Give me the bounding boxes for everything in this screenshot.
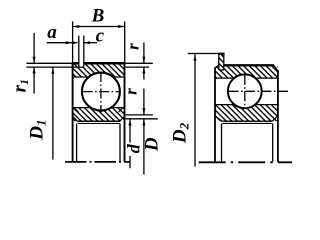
left face line (right bearing) — [214, 68, 216, 162]
right inner vertical below bore (right bearing) — [272, 123, 274, 161]
right face line (right bearing) — [277, 70, 279, 162]
inner ring section hatch (right bearing) — [215, 105, 278, 122]
a arrowhead at face — [66, 41, 73, 44]
inner ring top boundary line (right) — [215, 104, 278, 106]
chamfer extension line to right — [126, 66, 149, 68]
svg-text:r: r — [124, 43, 143, 50]
r1 dimension lower shaft — [33, 67, 35, 94]
a dimension tail line — [47, 42, 72, 44]
svg-text:D: D — [141, 137, 162, 152]
c arrowhead right (pointing left) — [84, 41, 90, 44]
groove bottom (left) — [79, 66, 84, 68]
d dimension line lower segment — [129, 156, 131, 168]
D dimension line lower shaft — [143, 119, 145, 175]
chamfer extension line near bore (right side) — [126, 114, 153, 116]
svg-text:c: c — [96, 26, 105, 47]
ball centerline horizontal (left) — [83, 91, 120, 93]
axis line (left bearing) — [65, 161, 130, 163]
snap ring groove bottom (right bearing) — [219, 69, 224, 71]
d arrowhead up — [129, 119, 132, 126]
right face line (left bearing) — [124, 62, 126, 162]
svg-text:d: d — [123, 143, 143, 153]
bore chamfer left (right bearing) — [216, 117, 222, 122]
ball centerline horizontal (right, extends past face) — [229, 90, 291, 92]
c dimension tail line — [84, 42, 97, 44]
B extension line left — [72, 21, 74, 62]
inner ring section hatch (left bearing) — [73, 108, 125, 122]
OD extension line to left — [26, 62, 71, 64]
groove-bottom extension line to left — [26, 66, 78, 68]
snap ring tab hatch — [219, 54, 223, 70]
outer ring OD line left segment — [72, 62, 79, 65]
OD top chamfer left (right bearing) — [215, 65, 219, 68]
B arrowhead left — [73, 25, 80, 28]
outer ring OD line right segment — [84, 62, 126, 65]
bore chamfer left (left bearing) — [73, 117, 78, 122]
r mid arrowhead up — [142, 119, 145, 126]
B extension line right — [124, 21, 126, 62]
r1 arrowhead up — [33, 67, 36, 74]
B dimension line — [73, 26, 125, 28]
r top arrowhead up — [142, 67, 145, 74]
outer ring section hatch (right bearing) — [215, 66, 278, 78]
bore line 1 (right) — [222, 120, 272, 122]
D1 dimension line — [52, 67, 54, 159]
snap ring tab right side — [223, 54, 225, 70]
inner ring top-left chamfer (left bearing) — [74, 108, 78, 112]
groove left side / c extension line — [78, 36, 80, 68]
r mid dimension upper shaft — [143, 89, 145, 115]
r1 dimension upper shaft — [33, 33, 35, 63]
r top lower shaft — [143, 67, 145, 80]
r1 arrowhead down — [33, 57, 36, 64]
groove right side / c extension line — [83, 36, 85, 68]
bore chamfer right (right bearing) — [272, 117, 277, 122]
D1 arrowhead up — [51, 67, 54, 74]
r mid arrowhead down — [142, 108, 145, 115]
outer ring section hatch (left bearing) — [73, 65, 125, 78]
ball (right bearing) — [228, 74, 262, 108]
bore line 1 (left) — [77, 120, 120, 122]
OD top chamfer right (right bearing) — [273, 65, 278, 71]
r top arrowhead down — [142, 57, 145, 64]
svg-text:a: a — [47, 22, 57, 43]
left inner vertical below bore (right bearing) — [221, 123, 223, 161]
bore extension line to right — [126, 118, 158, 120]
outer ring inner boundary line (left) — [73, 76, 125, 78]
svg-text:r: r — [122, 88, 141, 95]
svg-text:B: B — [91, 5, 105, 26]
OD extension line to right — [126, 62, 153, 64]
d dimension line upper segment — [129, 119, 131, 143]
snap ring tab left side — [218, 54, 220, 70]
D2 dimension line — [194, 54, 196, 166]
left face line (left bearing) — [72, 62, 74, 162]
snap ring groove white notch (left) — [79, 58, 83, 67]
right inner vertical below bore — [119, 124, 121, 162]
axis line (right bearing) — [199, 161, 292, 163]
inner ring top boundary line (left) — [73, 107, 125, 109]
r top dimension upper shaft — [143, 42, 145, 63]
B arrowhead right — [118, 25, 125, 28]
D2 arrowhead up — [194, 54, 197, 61]
ball centerline vertical (right) — [244, 75, 246, 108]
OD line (right bearing) — [224, 64, 274, 66]
bore chamfer right (left bearing) — [120, 117, 125, 122]
snap ring top edge — [218, 53, 225, 55]
bore line 2 (left) — [78, 123, 120, 125]
left inner vertical below bore — [76, 124, 78, 162]
ball centerline vertical (left) — [100, 72, 102, 112]
bore line 2 (right) — [223, 122, 272, 124]
ball (left bearing) — [82, 73, 120, 111]
outer ring inner boundary line (right) — [215, 77, 278, 79]
D2 extension line — [188, 53, 219, 55]
c arrowhead left (pointing right) — [73, 41, 79, 44]
inner ring top-right chamfer (left bearing) — [119, 108, 123, 112]
